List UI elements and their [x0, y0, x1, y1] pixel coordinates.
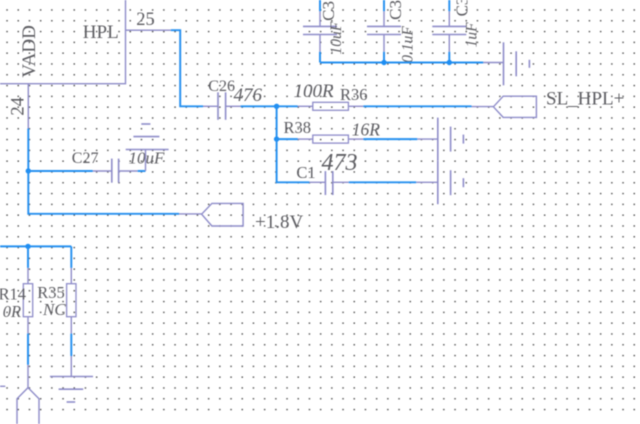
wire left edge to R14/R35: [0, 245, 71, 247]
wire C31 to bus: [319, 52, 321, 63]
pin 24: [27, 84, 29, 129]
ground below R35: [50, 356, 93, 402]
bus wire caps to ground: [320, 62, 483, 64]
svg-text:24: 24: [8, 97, 28, 116]
wire pin25 to C26: [171, 30, 203, 106]
svg-text:NC: NC: [42, 300, 66, 319]
wire node A down to node B: [276, 106, 278, 139]
wire C1 to ground: [349, 181, 416, 183]
wire node E to C27: [28, 170, 93, 172]
wire C27 to ground: [138, 170, 146, 172]
node E junction: [26, 168, 31, 173]
ground at capacitor bus: [483, 42, 529, 85]
wire node E to +1.8V port: [28, 171, 179, 214]
svg-text:100R: 100R: [294, 81, 335, 102]
port at bottom of R14: [17, 365, 39, 424]
wire C33 stub top: [448, 0, 450, 11]
svg-text:C32: C32: [386, 0, 405, 20]
ground at R38: [417, 118, 463, 161]
wire pin24 down: [27, 129, 29, 172]
svg-text:VADD: VADD: [19, 25, 40, 77]
node A junction: [274, 104, 279, 109]
ground at C1: [416, 161, 463, 204]
node B junction: [274, 136, 279, 141]
svg-text:R14: R14: [0, 284, 26, 303]
svg-text:10uF: 10uF: [129, 149, 166, 168]
port SL_HPL+: [472, 96, 537, 117]
ground at C27: [126, 124, 169, 171]
node F junction: [25, 244, 30, 249]
wire R35 branch: [70, 246, 72, 268]
wire C32 stub top: [383, 0, 385, 11]
wire node B to R38: [277, 138, 298, 140]
wire R35 to ground: [70, 334, 72, 356]
svg-text:R36: R36: [340, 85, 368, 104]
port +1.8V: [179, 203, 243, 226]
wire R38 to ground: [363, 138, 417, 140]
wire stub at left edge: [0, 385, 5, 387]
wire C33 to bus: [448, 52, 450, 63]
wire C26 to node A: [241, 105, 277, 107]
IC U1 box: [0, 0, 126, 84]
svg-text:C1: C1: [296, 163, 315, 182]
svg-text:SL_HPL+: SL_HPL+: [546, 89, 624, 110]
svg-text:HPL: HPL: [83, 22, 119, 43]
svg-text:C26: C26: [208, 78, 235, 95]
svg-text:0.1uF: 0.1uF: [399, 26, 416, 63]
wire node A to R36: [277, 105, 298, 107]
svg-text:C27: C27: [72, 150, 99, 167]
svg-text:+1.8V: +1.8V: [255, 212, 303, 233]
svg-text:C31: C31: [319, 0, 338, 21]
node D junction: [447, 60, 452, 65]
wire R36 to port: [363, 105, 471, 107]
svg-text:R38: R38: [284, 118, 312, 137]
resistor R36: [298, 102, 364, 110]
capacitor C26: [203, 92, 241, 120]
wire C31 stub top: [319, 0, 321, 11]
resistor R14: [23, 268, 32, 334]
svg-text:10uF: 10uF: [328, 21, 345, 54]
capacitor C1: [309, 171, 348, 195]
svg-text:473: 473: [322, 150, 358, 176]
svg-text:1uF: 1uF: [463, 22, 480, 48]
svg-text:0R: 0R: [3, 302, 21, 321]
pin 25: [126, 29, 171, 31]
wire node F down to R14: [27, 246, 29, 268]
svg-text:476: 476: [234, 85, 263, 106]
resistor R35: [67, 268, 76, 334]
wire node B down to C1: [277, 139, 310, 182]
capacitor C27: [93, 159, 138, 183]
capacitor C32: [367, 11, 401, 52]
wire C32 to bus: [383, 52, 385, 63]
wire R14 to bottom port: [27, 334, 29, 365]
capacitor C31: [303, 11, 337, 52]
node C junction: [381, 60, 386, 65]
svg-text:16R: 16R: [352, 119, 381, 139]
svg-text:25: 25: [136, 10, 155, 30]
capacitor C33: [432, 11, 466, 52]
svg-text:C33: C33: [452, 0, 471, 16]
resistor R38: [298, 135, 364, 143]
